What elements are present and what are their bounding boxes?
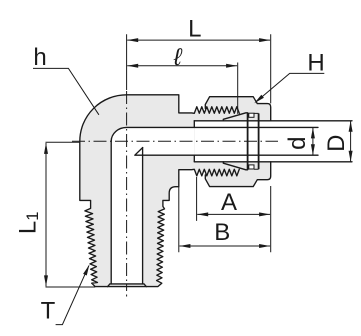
tube region white	[195, 121, 271, 161]
label T leader	[56, 266, 89, 325]
front ferrule bottom	[223, 162, 247, 170]
dimension L1	[45, 143, 47, 287]
vertical centerline	[126, 91, 128, 291]
back ferrule vertical 2	[258, 113, 260, 169]
dimension ell extension	[237, 63, 239, 114]
svg-text:H: H	[307, 50, 324, 77]
body outline top	[127, 95, 240, 114]
tube OD lines	[194, 121, 352, 162]
dimension B	[179, 245, 270, 247]
dimension d	[312, 127, 314, 155]
bore end chamfer	[108, 284, 147, 287]
body outline bottom	[80, 95, 240, 287]
dimension L1 extension	[46, 142, 96, 287]
dimension L	[127, 39, 270, 41]
nut bottom outline	[205, 162, 270, 187]
tube shoulder	[193, 121, 195, 162]
svg-text:ℓ: ℓ	[173, 44, 183, 71]
nut bottom fill	[205, 162, 270, 187]
dimension D	[350, 121, 352, 162]
dimension ell	[127, 65, 237, 67]
bore white	[111, 127, 194, 284]
svg-text:T: T	[41, 298, 56, 325]
nut top outline	[205, 97, 270, 121]
bore line bottom with corner chamfer	[135, 148, 318, 156]
bore line top with elbow arc	[111, 127, 318, 141]
dimension A	[197, 213, 270, 215]
horizontal centerline	[72, 140, 278, 142]
ferrule seat lines	[254, 113, 259, 169]
nut top fill	[205, 97, 270, 121]
back ferrule section squares	[249, 113, 254, 117]
svg-text:h: h	[33, 44, 46, 71]
back ferrule vertical 1	[247, 113, 249, 170]
front ferrule top	[223, 113, 247, 121]
svg-text:L: L	[188, 16, 201, 43]
label H leader	[256, 73, 325, 102]
dimension A extension	[179, 177, 271, 252]
dimension L extension lines	[127, 34, 271, 103]
svg-text:A: A	[221, 189, 237, 216]
label h leader	[33, 68, 99, 114]
svg-text:d: d	[284, 137, 311, 150]
bore lines vertical leg	[111, 141, 142, 284]
svg-text:D: D	[323, 135, 350, 152]
elbow body fill	[80, 95, 240, 287]
svg-text:B: B	[214, 219, 230, 246]
